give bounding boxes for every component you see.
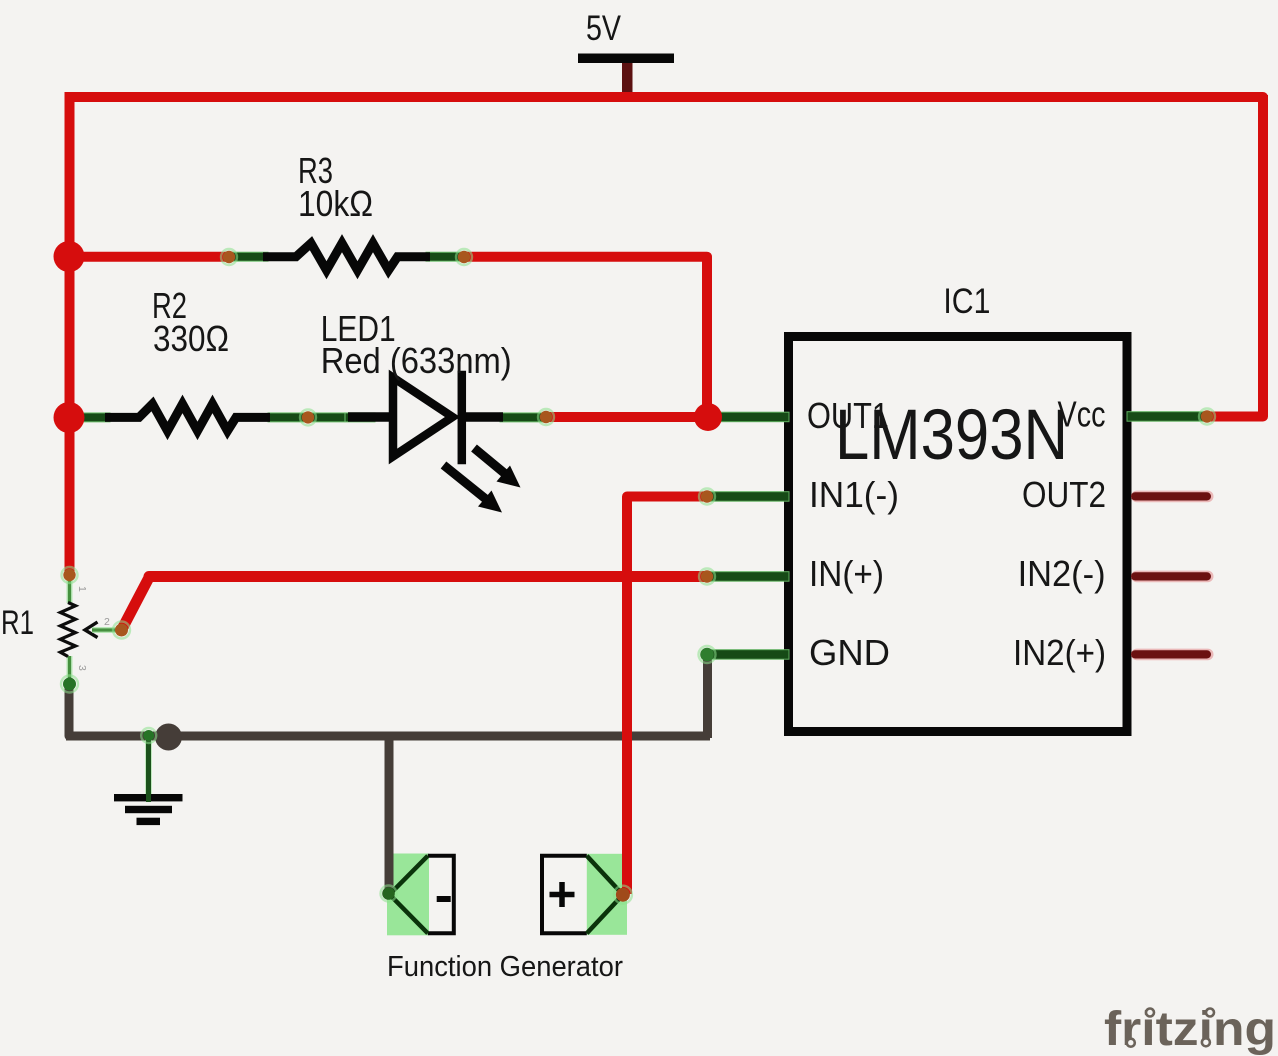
terminal R2/LED junction xyxy=(300,409,316,425)
junction node A (5V rail / R3 / R2) xyxy=(54,241,85,272)
potentiometer R1 pin3 xyxy=(67,656,73,684)
LED1 cathode lead xyxy=(462,412,503,422)
svg-text:2: 2 xyxy=(104,616,110,628)
terminal R3 left xyxy=(221,249,237,265)
wire GND net horizontal run xyxy=(66,732,710,741)
function generator minus terminal diagonals xyxy=(390,856,428,934)
wire node A to R3 left xyxy=(64,252,229,262)
potentiometer R1 body zigzag xyxy=(60,603,75,657)
terminal IN(+) xyxy=(699,569,715,585)
svg-text:5V: 5V xyxy=(586,9,622,48)
svg-text:10kΩ: 10kΩ xyxy=(298,183,373,224)
svg-text:IC1: IC1 xyxy=(943,282,990,321)
pin Vcc xyxy=(1127,412,1207,422)
wire R3 right to OUT1 node xyxy=(464,257,707,417)
potentiometer R1 wiper arrow xyxy=(85,622,98,638)
pin IN(+) xyxy=(705,572,789,582)
resistor R3 right pin xyxy=(426,252,464,261)
pin IN1(-) xyxy=(705,492,789,502)
svg-text:R1: R1 xyxy=(1,604,34,642)
terminal R1 pin1 xyxy=(62,567,78,583)
terminal R3 right xyxy=(456,249,472,265)
pin GND xyxy=(705,650,789,660)
op-amp IC1 LM393N body xyxy=(789,337,1128,732)
terminal R1 wiper xyxy=(113,622,130,639)
minus sign xyxy=(437,896,451,902)
svg-text:IN2(+): IN2(+) xyxy=(1013,632,1106,673)
LED1 left pin xyxy=(345,413,375,422)
svg-text:Red (633nm): Red (633nm) xyxy=(321,340,512,381)
power symbol 5V stub xyxy=(622,60,633,96)
ground symbol pin xyxy=(145,736,152,796)
potentiometer R1 wiper pin xyxy=(92,627,122,633)
LED1 emission arrow 1 xyxy=(474,448,521,488)
wire 5V net: right vertical rail and to Vcc pin xyxy=(1205,95,1263,417)
terminal ground xyxy=(141,728,156,743)
potentiometer R1 pin1 xyxy=(67,575,73,603)
svg-text:OUT1: OUT1 xyxy=(807,395,889,436)
svg-text:IN2(-): IN2(-) xyxy=(1018,553,1106,594)
function generator plus terminal diagonals xyxy=(587,856,623,934)
svg-text:3: 3 xyxy=(76,665,88,671)
terminal R1 pin3 xyxy=(61,676,78,693)
wire function generator plus to IN1(-) xyxy=(627,497,705,895)
function generator minus terminal outline xyxy=(428,856,454,934)
fritzing logo rings xyxy=(1127,1039,1135,1047)
wire 5V net: left vertical rail xyxy=(65,92,75,575)
terminal LED right xyxy=(538,409,554,425)
svg-text:Vcc: Vcc xyxy=(1058,394,1106,435)
svg-text:GND: GND xyxy=(809,632,890,673)
terminal Vcc xyxy=(1199,409,1215,425)
wire GND net (gray) : R1 pin3 to ground junction xyxy=(69,684,75,736)
pin IN2(-) (unconnected) xyxy=(1131,571,1214,583)
svg-text:1: 1 xyxy=(76,586,88,592)
pin OUT2 (unconnected) xyxy=(1131,491,1214,503)
resistor R2 left pin xyxy=(80,413,110,422)
svg-text:IN(+): IN(+) xyxy=(809,553,884,594)
resistor R2 body xyxy=(105,404,270,431)
function generator minus terminal highlight xyxy=(387,854,429,936)
svg-text:OUT2: OUT2 xyxy=(1022,474,1106,515)
terminal FG minus xyxy=(381,886,397,902)
svg-text:IN1(-): IN1(-) xyxy=(809,474,899,515)
resistor R3 body xyxy=(263,243,430,270)
LED1 right pin xyxy=(500,413,545,422)
svg-text:330Ω: 330Ω xyxy=(153,318,229,359)
wire 5V net: top horizontal rail xyxy=(70,97,1264,102)
pin IN2(+) (unconnected) xyxy=(1131,649,1214,661)
LED1 emission arrow 2 xyxy=(444,465,503,513)
svg-text:fritzing: fritzing xyxy=(1104,1003,1276,1056)
wire R1 wiper to IN(+) xyxy=(122,577,706,631)
wire GND net riser to IC GND pin xyxy=(703,654,712,738)
pin OUT1 xyxy=(709,412,789,422)
LED1 triangle xyxy=(393,378,453,457)
plus sign xyxy=(550,882,575,907)
wire GND net drop to function generator minus xyxy=(385,734,394,893)
terminal GND pin xyxy=(699,646,716,663)
junction node ground xyxy=(155,724,182,751)
function generator plus terminal highlight xyxy=(587,854,627,935)
svg-text:Function Generator: Function Generator xyxy=(387,951,623,983)
terminal IN1(-) xyxy=(699,489,715,505)
wire LED1 cathode to OUT1 node xyxy=(546,412,712,422)
power symbol 5V bar xyxy=(578,54,674,64)
junction node B (R2 row) xyxy=(54,402,85,433)
resistor R2 right pin xyxy=(268,413,345,422)
resistor R3 left pin xyxy=(230,252,268,261)
ground symbol bars xyxy=(114,794,183,801)
function generator plus terminal outline xyxy=(542,856,587,934)
LED1 cathode bar xyxy=(458,375,467,460)
LED1 anode lead xyxy=(348,412,392,422)
junction node OUT1 xyxy=(694,403,722,431)
terminal FG plus xyxy=(614,886,632,904)
